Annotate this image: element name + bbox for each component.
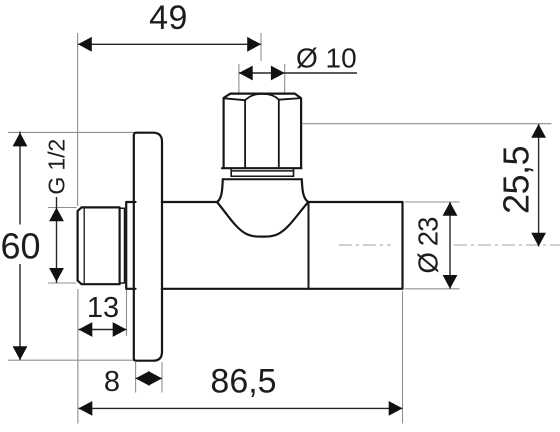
svg-text:86,5: 86,5 <box>210 363 276 401</box>
svg-text:Ø 10: Ø 10 <box>296 43 357 74</box>
svg-text:13: 13 <box>87 292 119 324</box>
svg-text:25,5: 25,5 <box>496 146 537 214</box>
svg-text:Ø 23: Ø 23 <box>413 217 444 274</box>
svg-text:G 1/2: G 1/2 <box>44 139 70 195</box>
svg-text:49: 49 <box>149 0 188 37</box>
svg-text:60: 60 <box>0 226 40 267</box>
svg-text:8: 8 <box>104 366 120 398</box>
